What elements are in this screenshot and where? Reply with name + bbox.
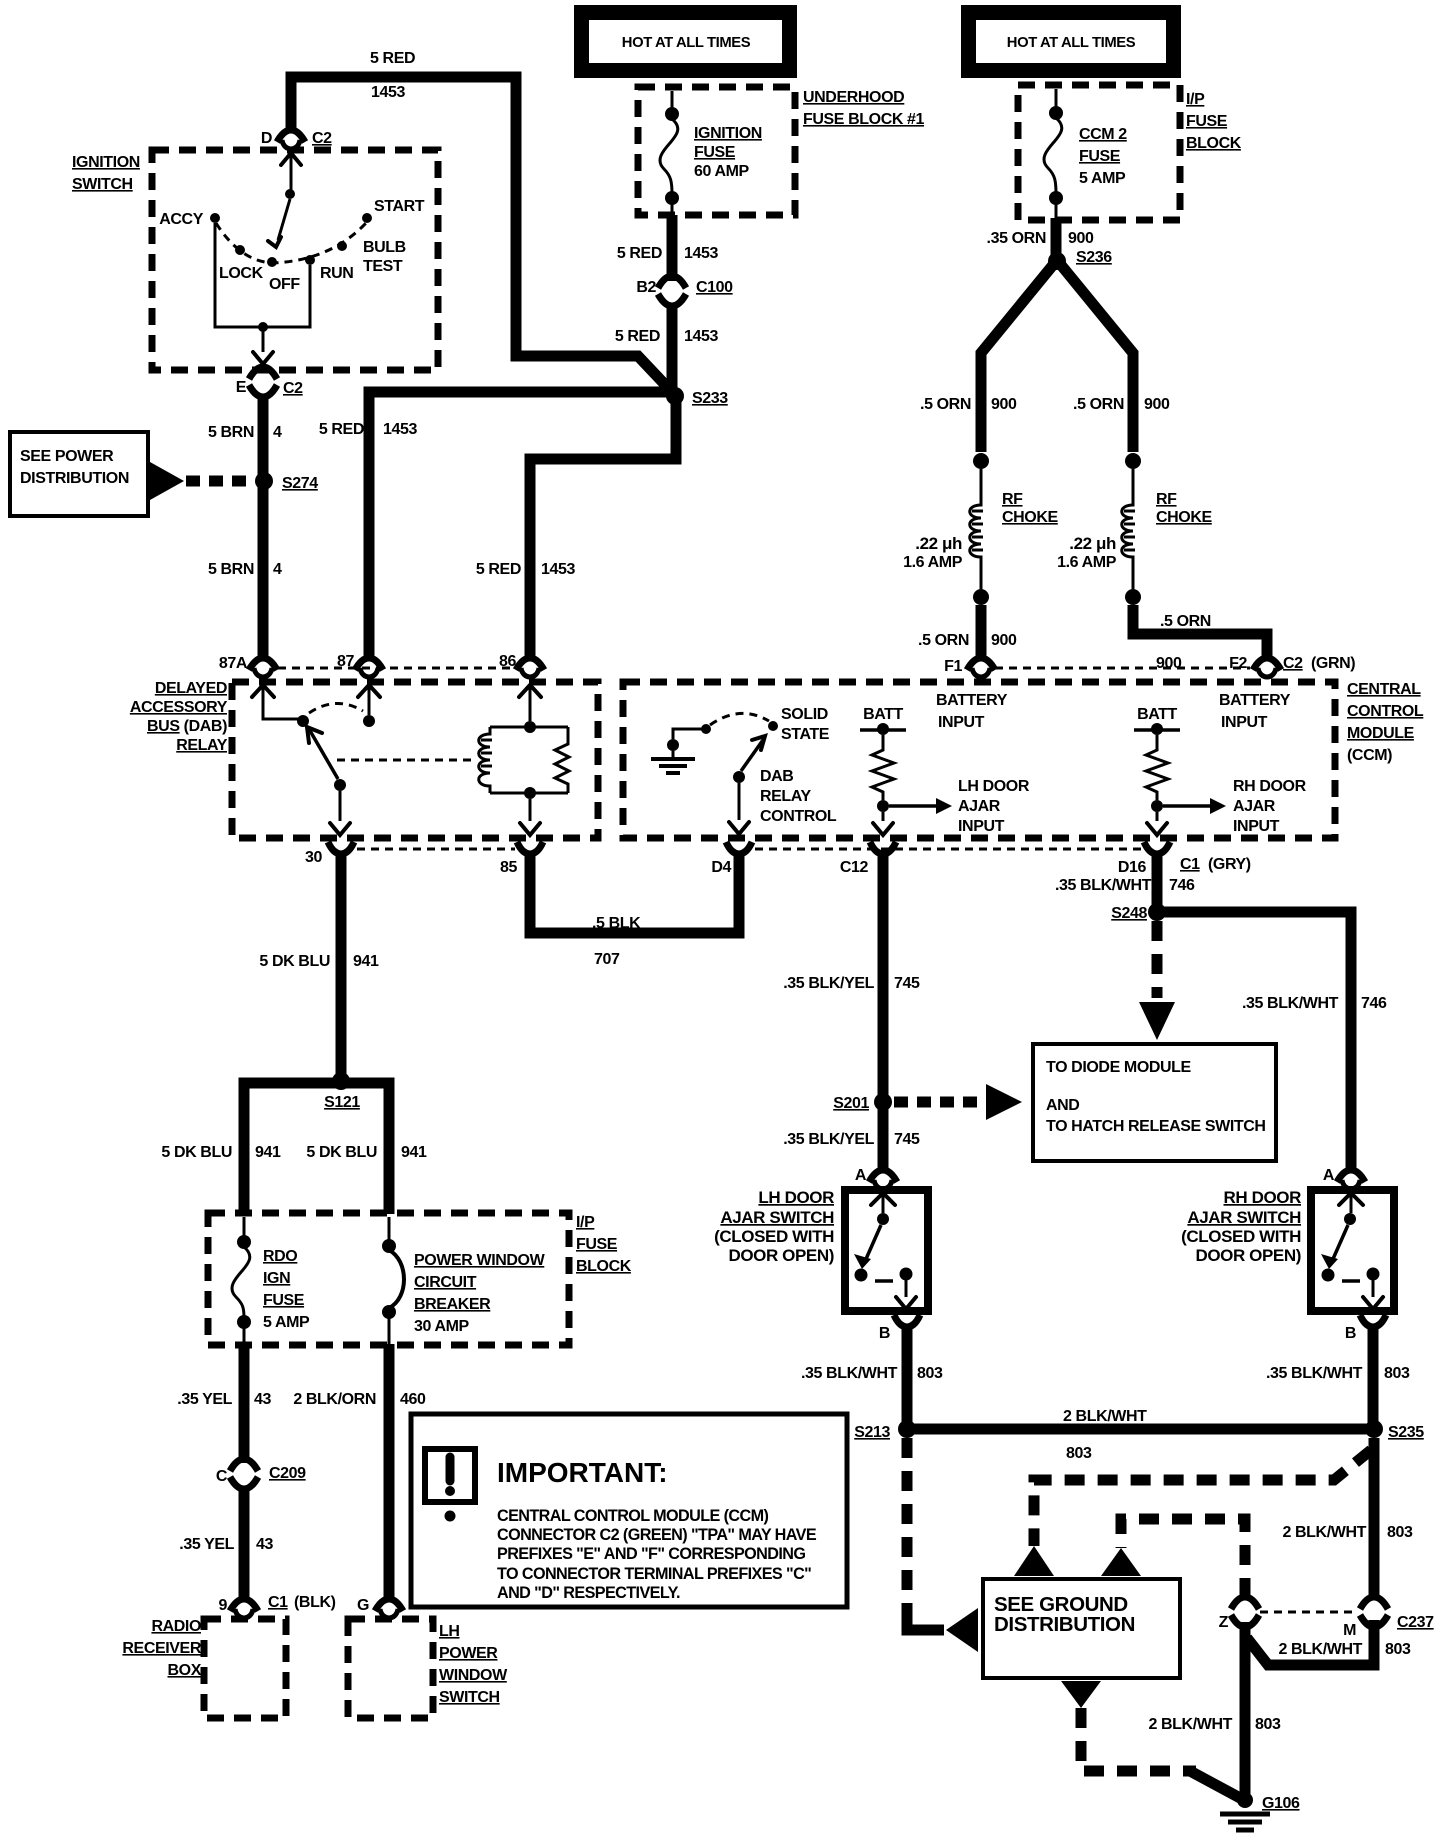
svg-text:4: 4 — [273, 424, 282, 441]
svg-text:G: G — [357, 1597, 369, 1614]
LH DOOR AJAR SWITCH pin B — [879, 1315, 920, 1342]
connector C1 (BLK) pin 9 — [219, 1594, 336, 1618]
svg-text:5 RED: 5 RED — [319, 421, 364, 438]
RH DOOR AJAR INPUT arrow — [1163, 778, 1307, 835]
connector C2 pin D — [261, 130, 332, 149]
label UNDERHOOD FUSE BLOCK #1 — [803, 89, 925, 128]
svg-text:1.6 AMP: 1.6 AMP — [903, 554, 963, 571]
svg-text:CHOKE: CHOKE — [1002, 509, 1059, 526]
label .35 BLK/YEL 745 (upper) — [783, 975, 920, 992]
splice S233 — [666, 387, 728, 407]
label BATTERY INPUT (right) — [1219, 692, 1291, 731]
svg-text:RECEIVER: RECEIVER — [122, 1640, 201, 1657]
svg-text:S201: S201 — [833, 1095, 869, 1112]
svg-text:ACCESSORY: ACCESSORY — [130, 699, 228, 716]
svg-text:INPUT: INPUT — [1233, 818, 1280, 835]
label 5 RED 1453 (87 wire) — [319, 421, 418, 438]
label .5 ORN 900 (right) — [1073, 396, 1170, 413]
svg-text:C: C — [216, 1468, 228, 1485]
fuse IGNITION FUSE 60 AMP — [660, 91, 762, 215]
svg-text:STATE: STATE — [781, 726, 830, 743]
svg-text:5 DK BLU: 5 DK BLU — [161, 1144, 232, 1161]
svg-text:.5 BLK: .5 BLK — [592, 915, 641, 932]
relay movable blade — [307, 727, 350, 835]
svg-text:PREFIXES "E" AND "F" CORRESPON: PREFIXES "E" AND "F" CORRESPONDING — [497, 1545, 805, 1563]
svg-text:.35 BLK/YEL: .35 BLK/YEL — [783, 1131, 874, 1148]
label .35 BLK/WHT 803 (LH) — [801, 1365, 943, 1382]
svg-text:5 RED: 5 RED — [476, 561, 521, 578]
wire S248 to RH door pin A — [1161, 912, 1351, 1173]
svg-text:RDO: RDO — [263, 1248, 297, 1265]
svg-text:UNDERHOOD: UNDERHOOD — [803, 89, 904, 106]
svg-text:FUSE: FUSE — [263, 1292, 305, 1309]
svg-text:TO DIODE MODULE: TO DIODE MODULE — [1046, 1059, 1192, 1076]
wire S213 to S235 (2 BLK/WHT 803) — [907, 1424, 1374, 1435]
node LOCK — [219, 245, 264, 282]
svg-text:2 BLK/WHT: 2 BLK/WHT — [1148, 1716, 1232, 1733]
svg-text:C100: C100 — [696, 279, 733, 296]
coil lead to pin 86 — [519, 685, 541, 721]
ground (CCM internal) — [651, 724, 711, 773]
svg-text:900: 900 — [991, 396, 1017, 413]
svg-text:C12: C12 — [840, 859, 869, 876]
svg-text:RH DOOR: RH DOOR — [1224, 1188, 1302, 1207]
svg-text:941: 941 — [401, 1144, 427, 1161]
svg-text:C237: C237 — [1397, 1614, 1434, 1631]
svg-text:5 RED: 5 RED — [617, 245, 662, 262]
svg-text:M: M — [1343, 1622, 1356, 1639]
svg-text:1453: 1453 — [383, 421, 417, 438]
continuation arrow into diode module box — [1139, 1002, 1175, 1040]
svg-text:B: B — [879, 1325, 890, 1342]
svg-text:FUSE: FUSE — [694, 144, 736, 161]
TO DIODE MODULE / TO HATCH RELEASE SWITCH box — [1033, 1044, 1276, 1161]
svg-text:746: 746 — [1169, 877, 1195, 894]
wire 5 RED from D connector to S233 — [291, 77, 672, 392]
svg-text:CENTRAL CONTROL MODULE (CCM): CENTRAL CONTROL MODULE (CCM) — [497, 1507, 768, 1525]
svg-text:803: 803 — [1255, 1716, 1281, 1733]
label .35 BLK/WHT 746 (upper) — [1055, 877, 1195, 894]
label 5 RED 1453 (86 wire) — [476, 561, 576, 578]
relay pin 86 — [499, 653, 544, 677]
wire S236 right branch to RF choke — [1061, 265, 1133, 452]
svg-text:745: 745 — [894, 975, 920, 992]
CCM pin F2, connector C2 (GRN) — [1229, 655, 1355, 677]
svg-text:SEE POWER: SEE POWER — [20, 448, 114, 465]
wire diagonal into G106 — [1190, 1771, 1242, 1799]
svg-text:803: 803 — [1387, 1524, 1413, 1541]
lead to pin C12 — [873, 812, 893, 835]
svg-text:CENTRAL: CENTRAL — [1347, 681, 1421, 698]
svg-text:AJAR SWITCH: AJAR SWITCH — [1187, 1208, 1301, 1227]
svg-text:900: 900 — [991, 632, 1017, 649]
node BULB TEST — [337, 239, 406, 275]
svg-text:BATT: BATT — [863, 706, 903, 723]
label .35 BLK/YEL 745 (lower) — [783, 1131, 920, 1148]
label 5 DK BLU 941 (right) — [306, 1144, 427, 1161]
label I/P FUSE BLOCK (lower) — [576, 1214, 632, 1275]
svg-text:AND "D" RESPECTIVELY.: AND "D" RESPECTIVELY. — [497, 1584, 680, 1602]
wire S235 down to pin M — [1369, 1438, 1380, 1600]
svg-text:RH DOOR: RH DOOR — [1233, 778, 1307, 795]
svg-text:LH: LH — [439, 1623, 460, 1640]
dashed wire S201 to diode module arrow — [894, 1097, 978, 1108]
node RUN — [305, 255, 353, 282]
wire C12 to S201 — [878, 852, 889, 1098]
svg-text:5 DK BLU: 5 DK BLU — [259, 953, 330, 970]
dashed wire S248 down to diode module arrow — [1152, 921, 1163, 998]
RH DOOR AJAR SWITCH pin A — [1323, 1167, 1365, 1189]
svg-text:2 BLK/ORN: 2 BLK/ORN — [293, 1391, 376, 1408]
svg-text:.22 μh: .22 μh — [915, 534, 962, 553]
DELAYED ACCESSORY BUS (DAB) RELAY dashed box — [232, 682, 598, 838]
svg-text:SOLID: SOLID — [781, 706, 828, 723]
svg-text:IGNITION: IGNITION — [72, 154, 140, 171]
svg-text:DOOR OPEN): DOOR OPEN) — [728, 1246, 834, 1265]
wire E to S274 to 87A — [258, 394, 269, 661]
svg-text:5 RED: 5 RED — [615, 328, 660, 345]
continuation arrow (left) into ground distribution box — [1014, 1546, 1054, 1576]
connector row dashed line D4-D16 — [755, 848, 1142, 851]
svg-text:.35 YEL: .35 YEL — [177, 1391, 232, 1408]
ground G106 — [1220, 1792, 1300, 1830]
label 5 RED 1453 — [615, 328, 719, 345]
svg-text:(GRY): (GRY) — [1208, 856, 1251, 873]
svg-text:S235: S235 — [1388, 1424, 1424, 1441]
LH door switch internals — [854, 1193, 916, 1309]
continuation arrow (right) into ground distribution box — [1101, 1548, 1141, 1576]
label .35 ORN 900 — [987, 230, 1094, 247]
label .35 BLK/WHT 746 (right) — [1242, 995, 1387, 1012]
RADIO RECEIVER BOX dashed box — [122, 1618, 286, 1718]
IGNITION SWITCH dashed box — [152, 150, 438, 370]
wire C209 to radio — [239, 1486, 250, 1602]
power feed box HOT AT ALL TIMES (I/P) — [961, 5, 1181, 78]
svg-text:.5 ORN: .5 ORN — [920, 396, 971, 413]
svg-text:43: 43 — [254, 1391, 271, 1408]
LH DOOR AJAR SWITCH pin A — [855, 1167, 897, 1189]
node ACCY — [159, 211, 220, 228]
svg-text:A: A — [1323, 1167, 1335, 1184]
svg-text:MODULE: MODULE — [1347, 725, 1415, 742]
label .35 YEL 43 (upper) — [177, 1391, 271, 1408]
svg-text:LOCK: LOCK — [219, 265, 264, 282]
wire pin M joining Z leg — [1247, 1620, 1374, 1665]
label 5 BRN 4 (upper) — [208, 424, 282, 441]
svg-text:BLOCK: BLOCK — [1186, 135, 1242, 152]
svg-text:1453: 1453 — [684, 328, 718, 345]
svg-text:TEST: TEST — [363, 258, 403, 275]
wire ACCY/RUN to pin E — [215, 223, 310, 364]
CCM pin D16, connector C1 (GRY) — [1118, 842, 1251, 876]
relay pin 87 — [337, 653, 383, 677]
svg-text:LH DOOR: LH DOOR — [758, 1188, 834, 1207]
wire left choke to F1 — [976, 605, 987, 661]
dashed wire ground distribution to G106 — [1081, 1708, 1196, 1771]
dashed wire Z branch to right ground arrow — [1121, 1519, 1245, 1598]
power feed box HOT AT ALL TIMES (underhood) — [574, 5, 797, 78]
svg-text:S248: S248 — [1111, 905, 1147, 922]
DAB relay control switch blade — [729, 736, 765, 834]
svg-text:BATTERY: BATTERY — [936, 692, 1008, 709]
svg-text:2 BLK/WHT: 2 BLK/WHT — [1282, 1524, 1366, 1541]
connector row dashed line 30-85 — [357, 848, 515, 851]
svg-text:30 AMP: 30 AMP — [414, 1318, 470, 1335]
svg-text:I/P: I/P — [576, 1214, 595, 1231]
splice S248 — [1111, 903, 1166, 922]
svg-text:RF: RF — [1156, 491, 1177, 508]
svg-text:941: 941 — [353, 953, 379, 970]
continuation arrow to S274 — [150, 462, 184, 500]
svg-text:WINDOW: WINDOW — [439, 1667, 508, 1684]
svg-text:803: 803 — [917, 1365, 943, 1382]
svg-text:IGNITION: IGNITION — [694, 125, 762, 142]
label .35 BLK/WHT 803 (RH) — [1266, 1365, 1410, 1382]
svg-text:DOOR OPEN): DOOR OPEN) — [1195, 1246, 1301, 1265]
wire right choke to F2 — [1133, 605, 1267, 661]
svg-text:DISTRIBUTION: DISTRIBUTION — [20, 470, 129, 487]
svg-text:B: B — [1345, 1325, 1356, 1342]
splice S121 — [324, 1072, 360, 1111]
svg-text:BULB: BULB — [363, 239, 406, 256]
dashed actuation line to coil — [337, 759, 477, 762]
svg-text:.22 μh: .22 μh — [1069, 534, 1116, 553]
svg-text:RELAY: RELAY — [760, 788, 811, 805]
svg-text:(CCM): (CCM) — [1347, 747, 1392, 764]
LH POWER WINDOW SWITCH dashed box — [348, 1619, 508, 1718]
wire ignition fuse to C100 — [667, 215, 678, 281]
svg-text:RF: RF — [1002, 491, 1023, 508]
dashed arc solid state switch — [710, 713, 769, 725]
svg-text:85: 85 — [500, 859, 517, 876]
label DELAYED ACCESSORY BUS (DAB) RELAY — [130, 680, 228, 754]
svg-text:FUSE: FUSE — [576, 1236, 618, 1253]
wire C100 to S233 — [667, 303, 678, 390]
svg-text:BUS (DAB): BUS (DAB) — [147, 718, 227, 735]
connector pin G — [357, 1597, 403, 1618]
relay contact 87 arm — [358, 685, 380, 727]
BATT input resistor (right) — [1134, 706, 1180, 812]
svg-text:87A: 87A — [219, 655, 248, 672]
svg-text:30: 30 — [305, 849, 322, 866]
svg-text:OFF: OFF — [269, 276, 300, 293]
svg-text:INPUT: INPUT — [1221, 714, 1268, 731]
label IGNITION SWITCH — [72, 154, 140, 193]
svg-text:HOT AT ALL TIMES: HOT AT ALL TIMES — [622, 35, 751, 51]
svg-text:.35 BLK/WHT: .35 BLK/WHT — [1266, 1365, 1363, 1382]
svg-text:803: 803 — [1385, 1641, 1411, 1658]
RF choke (left) .22 uh 1.6 AMP — [903, 453, 1058, 605]
svg-text:C2: C2 — [283, 380, 303, 397]
connector C237 pin M — [1343, 1597, 1434, 1639]
solid state contact — [768, 721, 778, 731]
svg-text:C2: C2 — [1283, 655, 1303, 672]
relay contact 87A arm — [252, 685, 298, 719]
splice S201 — [833, 1093, 892, 1112]
I/P FUSE BLOCK dashed box (lower) — [208, 1213, 569, 1345]
LH DOOR AJAR SWITCH box — [845, 1190, 928, 1311]
relay coil — [479, 721, 569, 799]
svg-text:C1: C1 — [1180, 856, 1200, 873]
svg-text:D4: D4 — [711, 859, 731, 876]
svg-text:IGN: IGN — [263, 1270, 290, 1287]
svg-text:1453: 1453 — [371, 84, 405, 101]
svg-text:DAB: DAB — [760, 768, 793, 785]
svg-text:FUSE BLOCK #1: FUSE BLOCK #1 — [803, 111, 925, 128]
svg-text:AND: AND — [1046, 1097, 1079, 1114]
svg-text:BATTERY: BATTERY — [1219, 692, 1291, 709]
fuse CCM 2 FUSE 5 AMP — [1044, 89, 1127, 219]
svg-text:(CLOSED WITH: (CLOSED WITH — [714, 1227, 834, 1246]
svg-text:G106: G106 — [1262, 1795, 1300, 1812]
svg-text:D16: D16 — [1118, 859, 1147, 876]
svg-text:.5 ORN: .5 ORN — [918, 632, 969, 649]
svg-text:4: 4 — [273, 561, 282, 578]
svg-text:INPUT: INPUT — [958, 818, 1005, 835]
svg-text:43: 43 — [256, 1536, 273, 1553]
RH DOOR AJAR SWITCH pin B — [1345, 1315, 1386, 1342]
svg-text:5 BRN: 5 BRN — [208, 561, 254, 578]
svg-text:IMPORTANT:: IMPORTANT: — [497, 1457, 668, 1488]
dashed wire S235 to left ground arrow (803) — [1034, 1450, 1371, 1546]
label BATTERY INPUT (left) — [936, 692, 1008, 731]
label .5 ORN 900 (to F1) — [918, 632, 1017, 649]
svg-text:1453: 1453 — [684, 245, 718, 262]
svg-text:5 RED: 5 RED — [370, 50, 415, 67]
svg-text:RELAY: RELAY — [176, 737, 227, 754]
svg-text:900: 900 — [1144, 396, 1170, 413]
svg-text:POWER: POWER — [439, 1645, 498, 1662]
svg-text:5 BRN: 5 BRN — [208, 424, 254, 441]
svg-text:ACCY: ACCY — [159, 211, 203, 228]
label RH DOOR AJAR SWITCH (CLOSED WITH DOOR OPEN) — [1181, 1188, 1301, 1265]
connector C2 pin E — [236, 367, 303, 397]
connector C100 pin B2 — [636, 276, 733, 306]
svg-text:2 BLK/WHT: 2 BLK/WHT — [1278, 1641, 1362, 1658]
svg-text:FUSE: FUSE — [1079, 148, 1121, 165]
connector row dashed line Z-M — [1260, 1611, 1358, 1614]
svg-text:.35 BLK/WHT: .35 BLK/WHT — [1055, 877, 1152, 894]
label 2 BLK/WHT 803 (G106 leg) — [1148, 1716, 1281, 1733]
label 5 RED 1453 — [617, 245, 719, 262]
svg-text:CONNECTOR C2 (GREEN) "TPA" MAY: CONNECTOR C2 (GREEN) "TPA" MAY HAVE — [497, 1526, 817, 1544]
svg-text:SWITCH: SWITCH — [72, 176, 133, 193]
svg-text:AJAR: AJAR — [958, 798, 1001, 815]
relay common pivot — [297, 715, 309, 727]
svg-text:RADIO: RADIO — [151, 1618, 201, 1635]
CCM pin D4 — [711, 842, 752, 876]
label SOLID STATE — [781, 706, 830, 743]
I/P FUSE BLOCK dashed box (top right) — [1018, 85, 1180, 220]
wire S233 to relay pin 87 — [369, 392, 668, 661]
LH DOOR AJAR INPUT arrow — [889, 778, 1030, 835]
label 2 BLK/ORN 460 — [293, 1391, 426, 1408]
svg-text:.35 BLK/WHT: .35 BLK/WHT — [1242, 995, 1339, 1012]
svg-text:C209: C209 — [269, 1465, 306, 1482]
svg-text:1.6 AMP: 1.6 AMP — [1057, 554, 1117, 571]
svg-text:5 DK BLU: 5 DK BLU — [306, 1144, 377, 1161]
svg-text:S233: S233 — [692, 390, 728, 407]
svg-text:BREAKER: BREAKER — [414, 1296, 491, 1313]
svg-text:.35 ORN: .35 ORN — [987, 230, 1046, 247]
svg-text:POWER WINDOW: POWER WINDOW — [414, 1252, 546, 1269]
svg-text:.35 BLK/WHT: .35 BLK/WHT — [801, 1365, 898, 1382]
label .35 YEL 43 (lower) — [179, 1536, 273, 1553]
svg-text:SWITCH: SWITCH — [439, 1689, 500, 1706]
svg-text:Z: Z — [1219, 1614, 1229, 1631]
label CENTRAL CONTROL MODULE (CCM) — [1347, 681, 1424, 764]
RF choke (right) .22 uh 1.6 AMP — [1057, 453, 1212, 605]
svg-text:900: 900 — [1068, 230, 1094, 247]
wire pin 85 to pin D4 (.5 BLK 707) — [530, 852, 739, 933]
relay pin 30 — [305, 842, 354, 866]
svg-text:60 AMP: 60 AMP — [694, 163, 750, 180]
svg-text:S213: S213 — [854, 1424, 890, 1441]
wire pin Z to G106 — [1240, 1622, 1251, 1797]
svg-text:.5 ORN: .5 ORN — [1160, 613, 1211, 630]
svg-text:803: 803 — [1384, 1365, 1410, 1382]
wire pin 30 to S121 — [336, 852, 347, 1083]
svg-text:FUSE: FUSE — [1186, 113, 1228, 130]
svg-text:S121: S121 — [324, 1094, 360, 1111]
label 2 BLK/WHT 803 (below M) — [1278, 1641, 1411, 1658]
svg-text:HOT AT ALL TIMES: HOT AT ALL TIMES — [1007, 35, 1136, 51]
connector row dashed line 87A-86 — [278, 667, 515, 670]
svg-text:CCM 2: CCM 2 — [1079, 126, 1127, 143]
label LH DOOR AJAR SWITCH (CLOSED WITH DOOR OPEN) — [714, 1188, 834, 1265]
label 5 DK BLU 941 (left) — [161, 1144, 281, 1161]
ignition switch wiper arm — [268, 153, 301, 247]
SEE GROUND DISTRIBUTION box — [983, 1579, 1180, 1678]
svg-text:CONTROL: CONTROL — [1347, 703, 1424, 720]
splice S213 — [854, 1420, 916, 1441]
splice S236 — [1048, 249, 1112, 270]
wire S233 to relay pin 86 — [530, 401, 676, 661]
svg-text:AJAR SWITCH: AJAR SWITCH — [720, 1208, 834, 1227]
label DAB RELAY CONTROL — [760, 768, 837, 825]
node OFF — [267, 257, 300, 293]
dashed wire S213 down to ground distribution arrow — [902, 1438, 913, 1615]
continuation arrow to diode module — [986, 1084, 1022, 1120]
connector row dashed line F1-F2 — [995, 667, 1250, 670]
svg-text:INPUT: INPUT — [938, 714, 985, 731]
RH DOOR AJAR SWITCH box — [1311, 1190, 1394, 1311]
svg-text:D: D — [261, 130, 272, 147]
svg-text:I/P: I/P — [1186, 91, 1205, 108]
svg-text:F1: F1 — [944, 658, 962, 675]
connector C237 pin Z — [1219, 1597, 1259, 1631]
RH door switch internals — [1321, 1193, 1383, 1309]
svg-text:START: START — [374, 198, 425, 215]
svg-text:.35 BLK/YEL: .35 BLK/YEL — [783, 975, 874, 992]
connector C209 pin C — [216, 1459, 306, 1489]
relay pin 85 — [500, 842, 543, 876]
svg-text:.35 YEL: .35 YEL — [179, 1536, 234, 1553]
svg-text:(GRN): (GRN) — [1311, 655, 1355, 672]
svg-text:2 BLK/WHT: 2 BLK/WHT — [1063, 1408, 1147, 1425]
wire S236 left branch to RF choke — [981, 265, 1053, 452]
CCM pin F1 — [944, 658, 995, 677]
svg-text:S236: S236 — [1076, 249, 1112, 266]
svg-text:S274: S274 — [282, 475, 318, 492]
svg-text:BATT: BATT — [1137, 706, 1177, 723]
SEE POWER DISTRIBUTION box — [10, 432, 148, 516]
svg-text:B2: B2 — [636, 279, 656, 296]
svg-text:CHOKE: CHOKE — [1156, 509, 1213, 526]
splice S235 — [1365, 1420, 1424, 1441]
node START — [362, 198, 425, 223]
dashed arc between relay contacts — [309, 703, 363, 713]
